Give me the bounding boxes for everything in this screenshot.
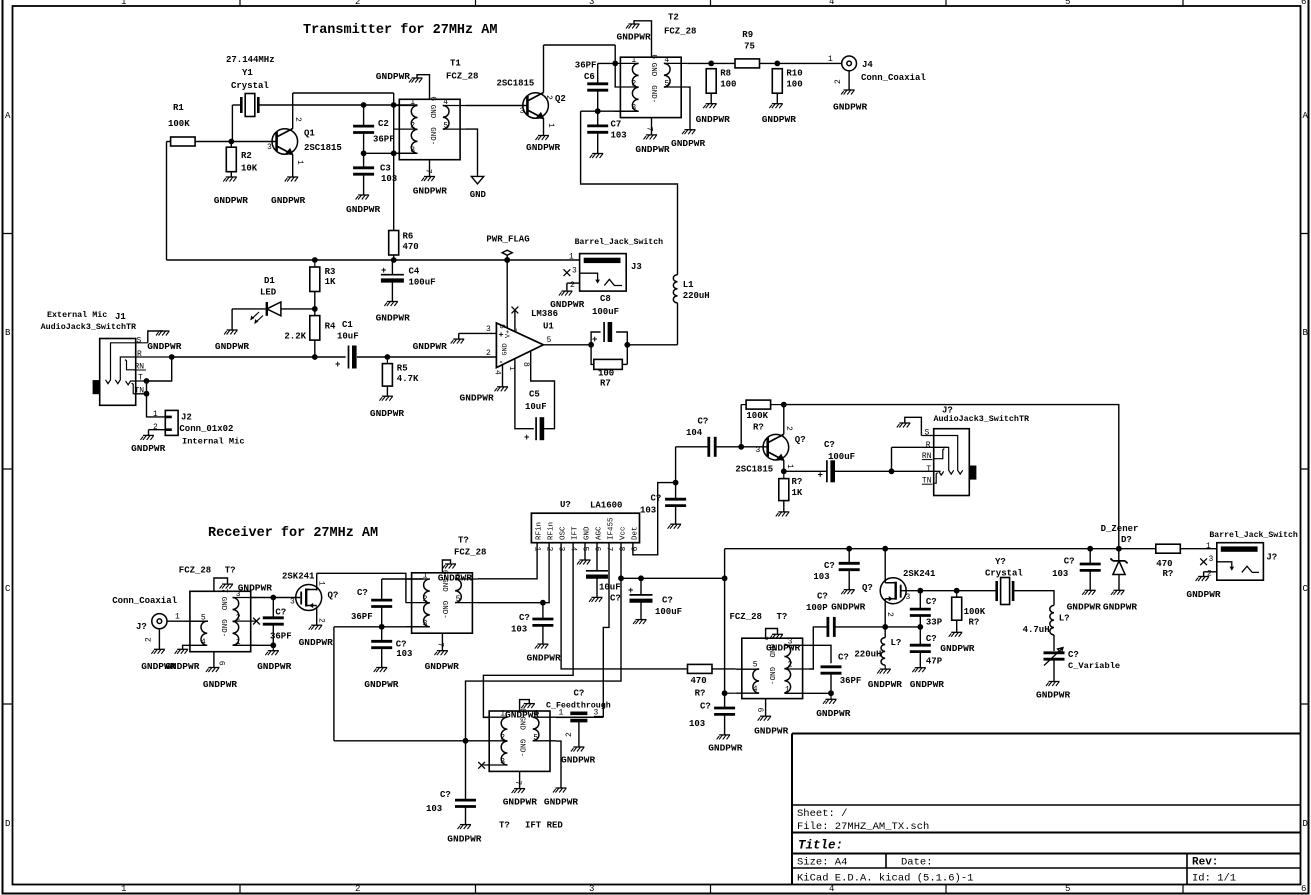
winding primary [233, 598, 239, 646]
wire C6 bottom lead [597, 90, 599, 111]
svg-text:Id: 1/1: Id: 1/1 [1192, 873, 1236, 885]
svg-text:3: 3 [589, 0, 594, 7]
wire LA1600 pin4 to IFT pin1 [483, 543, 573, 718]
capacitor C47P plates [910, 645, 931, 651]
wire 33P-47P link [919, 616, 921, 646]
svg-text:Y?: Y? [995, 557, 1006, 567]
wire to T5 pin4 [725, 692, 736, 694]
svg-text:1: 1 [569, 253, 574, 262]
svg-text:5: 5 [533, 733, 538, 742]
svg-text:IF455: IF455 [607, 517, 615, 540]
svg-text:1: 1 [1206, 542, 1211, 551]
svg-text:100: 100 [720, 80, 736, 90]
ground GNDPWR C103b [535, 644, 549, 649]
wire R100Kb bottom lead [956, 620, 958, 632]
wire AGC cap bottom lead [596, 577, 598, 597]
svg-text:GNDPWR: GNDPWR [561, 755, 596, 766]
svg-text:+: + [592, 335, 597, 345]
svg-text:A: A [5, 111, 11, 121]
wire C103e bottom lead [724, 714, 726, 735]
connector J? Conn_Coaxial RX [152, 614, 167, 629]
wire C103e top lead [724, 693, 726, 708]
resistor R2 body [226, 147, 236, 172]
wire T3 pin4 to gnd [183, 645, 184, 649]
svg-text:+: + [381, 266, 386, 276]
transformer T3 body [190, 591, 251, 651]
svg-text:75: 75 [744, 42, 755, 52]
svg-text:GNDPWR: GNDPWR [346, 204, 381, 215]
winding secondary [664, 63, 670, 87]
svg-text:GNDPWR: GNDPWR [527, 653, 562, 664]
capacitor C7 plates [587, 126, 608, 132]
svg-text:J3: J3 [631, 262, 642, 272]
svg-text:6: 6 [649, 54, 658, 59]
ground GNDPWR T3 pin4 [175, 649, 189, 654]
svg-text:10uF: 10uF [599, 583, 621, 593]
ground GNDPWR C103d [841, 590, 855, 595]
svg-text:1: 1 [153, 410, 158, 419]
svg-text:4.7uH: 4.7uH [1023, 625, 1050, 635]
wire J1 TN stub [136, 393, 147, 395]
wire FET2 drain [884, 549, 886, 583]
transformer T? FCZ_28 osc [742, 638, 803, 698]
pin 3 stub [483, 764, 507, 766]
svg-text:LM386: LM386 [531, 309, 558, 319]
svg-text:R2: R2 [241, 151, 252, 161]
svg-text:7: 7 [436, 642, 445, 647]
wire C36b to T4 pin1 [382, 578, 424, 580]
wire U1 pin1 to C5 [515, 359, 534, 429]
svg-text:470: 470 [691, 676, 707, 686]
title block [792, 734, 1301, 885]
svg-text:5: 5 [753, 661, 758, 670]
wire R1Kb top lead [783, 471, 785, 478]
ground GNDPWR U1 pin3 [451, 339, 465, 344]
connector J2 Conn_01x02 [165, 410, 178, 435]
svg-text:C?: C? [838, 653, 849, 663]
wire C4 bottom lead [391, 281, 393, 302]
svg-text:Q?: Q? [862, 583, 873, 593]
svg-text:R?: R? [753, 423, 764, 433]
junction pin8 Vcc [618, 575, 624, 581]
svg-text:R1: R1 [173, 103, 184, 113]
svg-text:GNDPWR: GNDPWR [766, 643, 801, 654]
svg-text:104: 104 [686, 428, 703, 438]
inductor L1 coil [673, 275, 677, 303]
wire T1 pin6 hook [417, 75, 430, 100]
svg-text:1: 1 [828, 55, 833, 64]
resistor R4 body [310, 316, 320, 341]
wire T2 pin5 to GND [687, 87, 690, 130]
capacitor C1 plates [349, 346, 355, 369]
svg-text:C?: C? [662, 596, 673, 606]
wire Vcc rail right [621, 577, 725, 579]
ground GND triangle [471, 176, 483, 184]
svg-text:2: 2 [500, 733, 505, 742]
svg-text:LED: LED [260, 288, 277, 298]
svg-text:B: B [5, 328, 11, 338]
ground GNDPWR J?bj [1196, 577, 1210, 582]
winding primary [632, 63, 638, 111]
svg-text:C4: C4 [409, 267, 420, 277]
wire R100Ka down [740, 405, 742, 447]
wire T1 pin5 to GND [466, 129, 478, 176]
transformer IFT body [489, 711, 550, 771]
ground GNDPWR zener [1111, 590, 1125, 595]
resistor R3 body [310, 267, 320, 292]
svg-text:R?: R? [695, 689, 706, 699]
power flag PWR_FLAG [502, 250, 512, 260]
svg-text:2SC1815: 2SC1815 [497, 79, 535, 89]
svg-text:C3: C3 [380, 164, 391, 174]
wire T1 pin7 down [429, 160, 431, 177]
svg-text:Rev:: Rev: [1192, 857, 1218, 869]
resistor R470a body [688, 664, 713, 673]
svg-text:103: 103 [689, 719, 705, 729]
inductor L4u7 coil [1050, 605, 1054, 635]
svg-text:Conn_Coaxial: Conn_Coaxial [861, 73, 926, 83]
junction C103f [1087, 546, 1093, 552]
svg-text:Vcc: Vcc [619, 526, 627, 540]
junction PWR_FLAG rail [504, 257, 510, 263]
wire T2 pin1-pin2 vertical [614, 45, 616, 87]
svg-text:2: 2 [145, 637, 154, 642]
ground GNDPWR T3 pin7 [220, 584, 234, 589]
svg-text:KiCad E.D.A. kicad (5.1.6)-1: KiCad E.D.A. kicad (5.1.6)-1 [797, 873, 973, 885]
wire LA1600 pin5 gnd [584, 543, 586, 560]
svg-text:GNDPWR: GNDPWR [238, 583, 273, 594]
wire C3 top lead [363, 153, 365, 168]
svg-text:2: 2 [565, 732, 574, 737]
svg-text:D?: D? [1121, 535, 1132, 545]
svg-text:1: 1 [317, 581, 326, 586]
svg-text:GNDPWR: GNDPWR [165, 661, 200, 672]
svg-text:C?: C? [1068, 650, 1079, 660]
wire drain to T4 pin2 [317, 573, 406, 602]
wire C2 bottom lead [363, 133, 365, 154]
svg-text:2: 2 [544, 95, 553, 100]
junction R5 [385, 354, 391, 360]
svg-text:7: 7 [513, 780, 522, 785]
svg-text:220uH: 220uH [854, 650, 881, 660]
wire collector to T1 pin2 vertical [293, 92, 394, 94]
winding primary [501, 717, 507, 765]
svg-text:1K: 1K [792, 488, 803, 498]
svg-text:Crystal: Crystal [231, 81, 269, 91]
capacitor C103e plates [714, 708, 735, 714]
junction FET2 drain rail [882, 546, 888, 552]
svg-text:R: R [926, 441, 931, 450]
transistor Q? audio body [763, 434, 789, 460]
svg-text:GNDPWR: GNDPWR [831, 602, 866, 613]
svg-text:GND: GND [470, 190, 487, 200]
svg-text:FCZ_28: FCZ_28 [454, 548, 486, 558]
svg-text:R6: R6 [403, 232, 414, 242]
svg-text:36PF: 36PF [575, 61, 597, 71]
wire J4 pin2 down [848, 71, 850, 90]
junction C36c pin1 [828, 690, 834, 696]
wire R100Ka right lead [771, 404, 784, 406]
ground GNDPWR J? coax [151, 649, 165, 654]
ground GNDPWR C4 [384, 302, 398, 307]
pin 5 stub [664, 86, 687, 88]
wire C103c top lead [675, 483, 677, 500]
ground GNDPWR J?rx S [897, 423, 911, 428]
svg-text:103: 103 [396, 649, 412, 659]
junction C8R7 left [588, 342, 594, 348]
wire Q1 emitter down [292, 155, 294, 177]
svg-text:100uF: 100uF [655, 607, 682, 617]
no-connect J3 pin3 [564, 269, 571, 276]
svg-text:7: 7 [759, 636, 768, 641]
svg-text:10K: 10K [241, 164, 258, 174]
svg-text:Q?: Q? [795, 435, 806, 445]
winding secondary [201, 621, 207, 645]
svg-text:103: 103 [611, 131, 627, 141]
pin 5 stub [443, 128, 466, 130]
svg-text:6: 6 [1301, 0, 1306, 7]
wire 33P top lead [919, 591, 921, 609]
wire C103g top lead [465, 741, 467, 800]
svg-text:5: 5 [443, 122, 448, 131]
svg-text:+: + [335, 360, 340, 370]
svg-text:4: 4 [201, 638, 206, 647]
pin 4 stub [184, 644, 207, 646]
wire T3 pin3 to gate node [251, 597, 301, 599]
svg-text:R3: R3 [325, 267, 336, 277]
svg-text:Internal Mic: Internal Mic [182, 437, 245, 447]
wire C36a top lead [272, 598, 274, 618]
svg-text:RFin: RFin [536, 522, 544, 540]
svg-text:3: 3 [906, 593, 911, 602]
ground GNDPWR T1 pin7 [422, 177, 436, 182]
junction pin1 wire [391, 102, 397, 108]
svg-text:6: 6 [497, 324, 506, 329]
svg-text:3: 3 [1209, 555, 1214, 564]
svg-text:GND: GND [502, 343, 510, 355]
J?bj switch contact [1217, 562, 1259, 573]
ground GNDPWR L220b [877, 669, 891, 674]
svg-text:2: 2 [153, 423, 158, 432]
wire Q1 collector up [292, 93, 294, 129]
svg-text:AudioJack3_SwitchTR: AudioJack3_SwitchTR [934, 414, 1030, 424]
svg-text:T?: T? [225, 566, 236, 576]
svg-text:Q2: Q2 [555, 94, 566, 104]
svg-text:100: 100 [786, 80, 802, 90]
svg-text:36PF: 36PF [351, 612, 373, 622]
wire L1 bottom lead [677, 303, 679, 345]
svg-text:T?: T? [458, 536, 469, 546]
wire J?bj pin2 [1204, 571, 1217, 573]
wire C100u bottom lead [640, 601, 642, 620]
wire D1 to gnd [231, 309, 233, 330]
wire T2 pin3 to L1 top [581, 111, 678, 275]
pin 4 stub [455, 578, 478, 580]
junction C2 C3 [361, 150, 367, 156]
wire D1 anode [232, 308, 267, 310]
wire T4 pin3 node [334, 626, 424, 628]
wire C2-C3 node to T1 pin3 [364, 152, 418, 154]
svg-text:470: 470 [403, 242, 419, 252]
pin 1 stub [483, 716, 507, 718]
wire R8 bottom lead [710, 93, 712, 104]
svg-text:FCZ_28: FCZ_28 [730, 612, 762, 622]
capacitor C36b plates [371, 600, 392, 606]
ground GNDPWR 47P [912, 668, 926, 673]
resistor R1Kb body [779, 479, 789, 501]
svg-text:3: 3 [500, 758, 505, 767]
junction J1 TN [144, 391, 150, 397]
resistor R100Ka body [746, 400, 771, 409]
svg-text:33P: 33P [926, 618, 943, 628]
svg-text:GNDPWR: GNDPWR [147, 341, 182, 352]
junction zener rail [1116, 546, 1122, 552]
svg-text:36PF: 36PF [270, 632, 292, 642]
connector J? AudioJack3_SwitchTR RX [934, 429, 970, 496]
junction pin3 wire [391, 150, 397, 156]
ground GNDPWR C103c [668, 524, 682, 529]
wire Q2 collector up [543, 45, 545, 93]
svg-text:103: 103 [640, 506, 656, 516]
svg-text:C?: C? [519, 613, 530, 623]
svg-text:3: 3 [290, 598, 295, 607]
pin 2 stub [614, 86, 638, 88]
wire LA1600 pin2 to T4 pin5 [478, 543, 549, 603]
pin 1 stub [393, 105, 417, 107]
svg-text:1: 1 [631, 56, 636, 65]
junction base 100K [738, 444, 744, 450]
wire J3 pin2 down [566, 283, 568, 291]
wire U1 output [543, 344, 591, 346]
svg-text:GNDPWR: GNDPWR [214, 195, 249, 206]
wire crystal left lead [232, 104, 241, 106]
wire LA1600 pin9 Det out [633, 483, 676, 555]
svg-text:2SC1815: 2SC1815 [735, 465, 773, 475]
svg-text:103: 103 [813, 572, 829, 582]
wire U1 pin8 to C5 [531, 351, 555, 429]
J?rx internal contacts [921, 436, 962, 484]
svg-text:C?: C? [926, 597, 937, 607]
no-connect T3 pin2 [253, 618, 260, 625]
wire C8 right [616, 332, 627, 364]
svg-text:2.2K: 2.2K [284, 332, 306, 342]
wire R4 bottom lead [314, 340, 316, 357]
junction T2 pin1 [612, 61, 618, 67]
junction C103b [540, 600, 546, 606]
capacitor C100ub plates [827, 460, 833, 482]
wire R9 to J4 [760, 62, 842, 64]
svg-text:GNDPWR: GNDPWR [910, 679, 945, 690]
connector J1 AudioJack3_SwitchTR [100, 339, 136, 406]
svg-text:1: 1 [236, 638, 241, 647]
wire C3 bottom lead [363, 174, 365, 195]
svg-text:C?: C? [396, 640, 407, 650]
ground GNDPWR J1 S [156, 331, 170, 336]
svg-text:100: 100 [598, 369, 614, 379]
svg-text:C?: C? [698, 417, 709, 427]
pin 2 stub [483, 740, 507, 742]
wire T5 pin3 to C36c [809, 645, 831, 663]
svg-text:10uF: 10uF [525, 402, 547, 412]
svg-text:U?: U? [560, 500, 571, 510]
svg-text:J2: J2 [181, 413, 192, 423]
wire R7 left [591, 345, 594, 365]
svg-text:GNDPWR: GNDPWR [438, 573, 473, 584]
capacitor C103d plates [839, 563, 860, 569]
wire J2 pin2 down [148, 430, 150, 436]
svg-text:D_Zener: D_Zener [1101, 524, 1139, 534]
wire Vcc to IFT pin2 [334, 740, 484, 742]
svg-text:+: + [628, 586, 633, 596]
svg-text:GNDPWR: GNDPWR [708, 743, 743, 754]
ground GNDPWR T2 pin5 [682, 130, 696, 135]
svg-text:GND-: GND- [518, 739, 526, 757]
svg-text:GND-: GND- [649, 85, 657, 103]
wire gate to crystal [901, 590, 997, 592]
svg-text:GNDPWR: GNDPWR [271, 195, 306, 206]
ground GNDPWR C7 [590, 154, 604, 159]
junction C6 C7 [595, 108, 601, 114]
wire J1 S to ground [148, 331, 163, 343]
svg-text:100uF: 100uF [828, 452, 855, 462]
T5 pin 5 stub [736, 668, 759, 670]
wire R7 right [622, 363, 627, 365]
crystal Y? osc [997, 578, 1013, 605]
svg-text:R10: R10 [786, 69, 802, 79]
capacitor C33P plates [910, 609, 931, 615]
svg-text:1: 1 [121, 0, 126, 7]
wire R1 to Q1 base [195, 141, 277, 143]
wire U1 pin6 Vcc [506, 260, 508, 329]
svg-text:GNDPWR: GNDPWR [696, 114, 731, 125]
svg-text:8: 8 [521, 362, 530, 367]
svg-text:C?: C? [651, 494, 662, 504]
wire J3 pin1 [564, 259, 580, 261]
svg-text:4: 4 [829, 0, 834, 7]
transformer T2 body [620, 57, 681, 117]
capacitor C103c plates [665, 499, 686, 505]
ground GNDPWR T2 pin7 [644, 135, 658, 140]
capacitor C? C_Feedthrough [570, 713, 587, 720]
svg-text:27.144MHz: 27.144MHz [226, 55, 275, 65]
wire L220b bottom lead [884, 665, 886, 669]
wire R470a to T5 pin5 [712, 668, 736, 670]
svg-text:2: 2 [317, 618, 326, 623]
wire J? pin2 down [158, 629, 160, 650]
svg-text:100K: 100K [168, 119, 190, 129]
wire C_Feedthrough through-line [556, 716, 603, 718]
svg-text:C?: C? [824, 561, 835, 571]
svg-text:5: 5 [456, 595, 461, 604]
junction J1 R T [169, 354, 175, 360]
wire L4u7 bottom lead [1053, 635, 1055, 651]
wire C36b bottom lead [381, 607, 383, 627]
junction C103d [846, 546, 852, 552]
capacitor C100P plates [828, 617, 834, 637]
wire C4 top lead [391, 260, 393, 274]
junction source L220 [882, 624, 888, 630]
svg-text:T1: T1 [450, 59, 461, 69]
junction R3 R4 D1 [312, 306, 318, 312]
svg-text:3: 3 [520, 107, 525, 116]
wire R1 down to rail [166, 142, 168, 261]
ground GNDPWR Q1 emitter [285, 177, 299, 182]
svg-text:C?: C? [1064, 557, 1075, 567]
svg-text:2SK241: 2SK241 [903, 569, 936, 579]
svg-text:3: 3 [267, 143, 272, 152]
wire C103c bottom lead [675, 506, 677, 525]
svg-text:GNDPWR: GNDPWR [1067, 602, 1102, 613]
